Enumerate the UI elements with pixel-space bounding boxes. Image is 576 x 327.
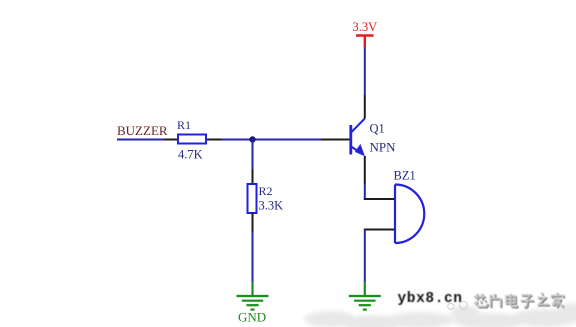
- resistor R1: [178, 135, 206, 144]
- pin R1 right (pin 2): [207, 139, 222, 141]
- junction node: [249, 136, 255, 142]
- wire junction down to R2: [252, 140, 254, 170]
- pin R1 left (pin 1): [164, 139, 177, 141]
- svg-text:NPN: NPN: [370, 140, 397, 155]
- transistor Q1 (NPN): [351, 119, 365, 157]
- watermark clouds: [304, 303, 576, 327]
- svg-text:3.3V: 3.3V: [353, 20, 378, 34]
- svg-text:GND: GND: [238, 310, 266, 325]
- pin BZ1 bottom (pin 2): [364, 229, 394, 231]
- pin Q1 emitter: [364, 156, 366, 184]
- pin Q1 collector: [364, 95, 366, 119]
- watermark 芯片电子之家 (drawn strokes, embossed): [474, 293, 564, 309]
- pin R2 bottom (pin 2): [252, 213, 254, 232]
- wire BUZZER to R1: [117, 139, 164, 141]
- pin BZ1 top (pin 1): [364, 198, 394, 200]
- wire emitter down: [364, 184, 366, 199]
- watermark circle mark: [448, 301, 468, 309]
- pin R2 top (pin 1): [252, 169, 254, 184]
- pin Q1 base: [321, 139, 350, 141]
- svg-text:4.7K: 4.7K: [178, 148, 203, 162]
- resistor R2: [248, 184, 257, 213]
- wire BZ1 to ground: [364, 230, 366, 282]
- wire R1 to Q1 base: [222, 139, 321, 141]
- wire R2 to GND: [252, 232, 254, 282]
- svg-text:3.3K: 3.3K: [259, 199, 284, 213]
- net label BUZZER: [117, 123, 168, 138]
- svg-text:R1: R1: [177, 118, 191, 132]
- power 3.3V bar: [356, 36, 374, 48]
- svg-text:Q1: Q1: [370, 122, 385, 136]
- svg-text:BUZZER: BUZZER: [117, 123, 168, 138]
- buzzer BZ1: [395, 185, 424, 244]
- svg-text:BZ1: BZ1: [394, 169, 416, 183]
- ground (power ground under BZ1): [349, 282, 381, 310]
- svg-text:R2: R2: [259, 184, 273, 198]
- wire collector to 3.3V: [364, 48, 366, 96]
- ground GND (power ground under R2): [237, 282, 269, 310]
